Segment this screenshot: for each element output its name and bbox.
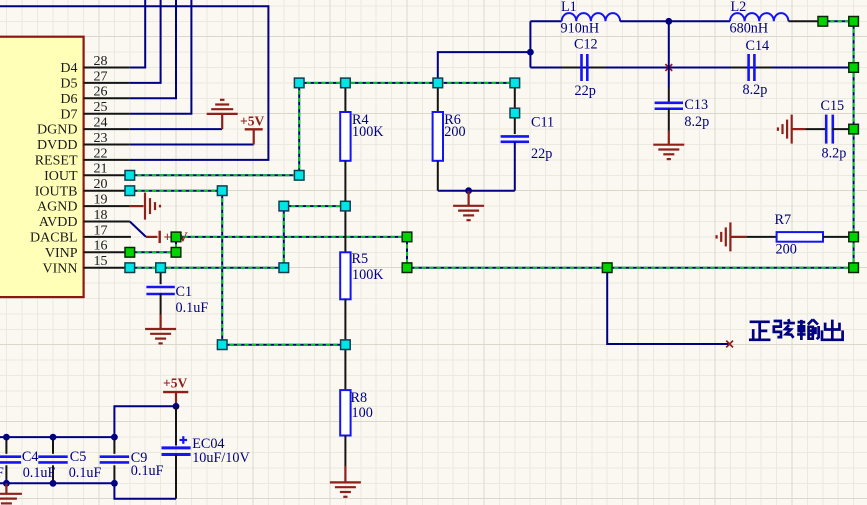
svg-text:15: 15 bbox=[94, 254, 108, 269]
junction dot (C9 bottom) bbox=[111, 480, 118, 487]
svg-text:C15: C15 bbox=[821, 98, 845, 114]
ground R7 (pointing left) bbox=[717, 222, 747, 251]
capacitor C1 bbox=[146, 287, 174, 294]
wire stub C14 left bbox=[731, 67, 746, 69]
wire C11 bottom bbox=[514, 142, 516, 191]
wire C15 right bbox=[832, 128, 849, 130]
pin 15 number bbox=[94, 254, 108, 269]
svg-text:L2: L2 bbox=[731, 0, 747, 15]
svg-text:D6: D6 bbox=[60, 92, 77, 107]
pin 17 (DACBL) lead bbox=[84, 236, 131, 238]
svg-text:200: 200 bbox=[776, 242, 797, 258]
wire C11 top bbox=[514, 83, 516, 134]
wire R7 right bbox=[823, 236, 849, 238]
label C14 bbox=[746, 38, 770, 54]
svg-text:D7: D7 bbox=[60, 107, 77, 122]
pin name D7 bbox=[60, 107, 77, 122]
pin 20 number bbox=[94, 177, 108, 192]
wire VINP (selected) bbox=[130, 251, 176, 253]
wire vertical x=222 (selected) bbox=[221, 191, 223, 345]
junction dot (176,406.3) bbox=[173, 403, 180, 410]
inductor L2 bbox=[730, 13, 788, 21]
wire R8 bottom bbox=[344, 436, 346, 467]
value 0.1uF (C4) bbox=[23, 465, 56, 481]
wire IOUT (selected) bbox=[130, 174, 299, 176]
IC U1 (DAC) body bbox=[0, 37, 84, 297]
svg-text:C4: C4 bbox=[22, 449, 39, 465]
svg-text:AGND: AGND bbox=[37, 200, 77, 215]
wire vertical x=284 (selected) bbox=[283, 206, 285, 268]
wire rail up to +5V node bbox=[114, 406, 176, 437]
pin name DVDD bbox=[37, 138, 77, 153]
pin name D5 bbox=[60, 77, 77, 92]
pin 19 (AGND) lead bbox=[84, 205, 130, 207]
svg-text:8.2p: 8.2p bbox=[684, 114, 709, 130]
svg-text:19: 19 bbox=[94, 193, 108, 208]
junction dot (C5 bottom) bbox=[50, 480, 57, 487]
pin 27 number bbox=[94, 69, 108, 84]
ground C13 bbox=[653, 131, 684, 160]
capacitor C15 bbox=[826, 115, 833, 144]
pin 18 (AVDD) lead bbox=[84, 221, 130, 223]
pin 28 (D4) lead bbox=[84, 67, 130, 69]
wire y=21 right (selected) bbox=[823, 20, 854, 22]
wire C13 top bbox=[668, 21, 670, 101]
wire stub C12 left bbox=[561, 67, 578, 69]
pin 26 (D6) lead bbox=[84, 97, 130, 99]
pin name VINN bbox=[43, 261, 78, 276]
label R4 bbox=[352, 112, 369, 128]
svg-text:C12: C12 bbox=[574, 37, 598, 53]
value 8.2p (C15) bbox=[822, 146, 847, 162]
wire R6-C11 horizontal bbox=[438, 190, 515, 192]
svg-text:22: 22 bbox=[94, 146, 108, 161]
resistor R4 bbox=[340, 112, 350, 161]
label R7 bbox=[775, 212, 792, 228]
capacitor C9 bbox=[100, 457, 129, 463]
pin 22 (RESET) lead bbox=[84, 159, 130, 161]
resistor R7 bbox=[777, 232, 823, 242]
svg-text:100K: 100K bbox=[352, 124, 384, 140]
svg-text:18: 18 bbox=[94, 208, 108, 223]
wire R6 top bbox=[437, 83, 439, 112]
pin 28 number bbox=[94, 54, 108, 69]
label C12 bbox=[574, 37, 598, 53]
wire DGND bbox=[130, 128, 222, 130]
label C15 bbox=[821, 98, 845, 114]
svg-text:C11: C11 bbox=[531, 115, 554, 131]
value 22p (C12) bbox=[575, 83, 596, 99]
resistor R6 bbox=[433, 112, 443, 161]
svg-text:+5V: +5V bbox=[240, 113, 264, 128]
wire R7 left bbox=[746, 236, 776, 238]
power +5V (EC04) bbox=[163, 376, 188, 407]
ground C15 (pointing left) bbox=[778, 115, 805, 144]
junction dot (C5 top) bbox=[50, 434, 57, 441]
wire stub C14 right bbox=[757, 67, 772, 69]
svg-text:680nH: 680nH bbox=[730, 20, 769, 36]
svg-text:0.1uF: 0.1uF bbox=[131, 463, 164, 479]
capacitor C5 bottom lead bbox=[52, 465, 54, 483]
svg-text:VINP: VINP bbox=[45, 246, 78, 261]
svg-text:IOUTB: IOUTB bbox=[35, 184, 78, 199]
inductor L1 bbox=[562, 13, 620, 21]
pin name IOUTB bbox=[35, 184, 78, 199]
wire sine output bbox=[607, 268, 729, 344]
power +5V (DACBL) bbox=[146, 229, 188, 244]
ground C1 bbox=[145, 315, 176, 344]
svg-text:24: 24 bbox=[94, 116, 108, 131]
junction dot (668.8,21.3) bbox=[665, 18, 672, 25]
capacitor EC04 (polarized) bbox=[162, 436, 191, 454]
pin name DACBL bbox=[30, 231, 77, 246]
wire R6 bottom bbox=[437, 161, 439, 191]
svg-text:25: 25 bbox=[94, 100, 108, 115]
pin 21 (IOUT) lead bbox=[84, 174, 130, 176]
svg-text:200: 200 bbox=[444, 124, 465, 140]
pin 16 number bbox=[94, 239, 108, 254]
pin 25 (D7) lead bbox=[84, 113, 130, 115]
capacitor C12 bbox=[582, 54, 588, 81]
selection handles (green vertices) bbox=[125, 17, 858, 273]
wire EC04 top lead bbox=[175, 406, 177, 445]
label C4 bbox=[22, 449, 39, 465]
wire x=438 to C12 rail bbox=[438, 52, 531, 83]
junction dot (C4 top) bbox=[3, 434, 10, 441]
value 0.1uF (C9) bbox=[131, 463, 164, 479]
pin name DGND bbox=[37, 123, 77, 138]
ground DGND (inverted) bbox=[207, 100, 238, 129]
svg-text:DGND: DGND bbox=[37, 123, 77, 138]
pin 24 (DGND) lead bbox=[84, 128, 130, 130]
capacitor C14 bbox=[749, 54, 755, 81]
value 8.2p (C14) bbox=[743, 82, 768, 98]
svg-text:C14: C14 bbox=[746, 38, 770, 54]
wire top rail y=83 (selected) bbox=[299, 82, 515, 84]
pin name IOUT bbox=[44, 169, 78, 184]
junction dot (C9 top) bbox=[111, 434, 118, 441]
svg-text:22p: 22p bbox=[531, 146, 552, 162]
svg-text:VINN: VINN bbox=[43, 261, 78, 276]
wire R5-R8 bbox=[344, 299, 346, 390]
value 200 (R6) bbox=[444, 124, 465, 140]
value 910nH (L1) bbox=[561, 20, 600, 36]
value 0.1uF (C3, off-screen) bbox=[0, 465, 4, 481]
label C5 bbox=[70, 449, 87, 465]
svg-text:0.1uF: 0.1uF bbox=[23, 465, 56, 481]
svg-text:10uF/10V: 10uF/10V bbox=[192, 450, 250, 466]
value 100 (R8) bbox=[352, 405, 373, 421]
capacitor C4 top lead bbox=[5, 437, 7, 454]
svg-text:0.1uF: 0.1uF bbox=[176, 300, 209, 316]
wire IOUTB (selected) bbox=[130, 190, 222, 192]
svg-text:100K: 100K bbox=[352, 267, 384, 283]
label R5 bbox=[352, 251, 369, 267]
capacitor C9 bottom lead bbox=[113, 465, 115, 483]
junction dot (468.6,190.7) bbox=[465, 187, 472, 194]
svg-text:21: 21 bbox=[94, 162, 108, 177]
power +5V (DVDD) bbox=[240, 113, 264, 144]
wire D7 to top bbox=[130, 0, 192, 114]
label C1 bbox=[176, 284, 193, 300]
pin name D4 bbox=[60, 61, 77, 76]
wire L1 feed vertical bbox=[529, 21, 531, 67]
wire R4 top bbox=[344, 83, 346, 112]
pin 25 number bbox=[94, 100, 108, 115]
pin name AVDD bbox=[39, 215, 78, 230]
ground (R6/C11) bbox=[453, 191, 484, 221]
pin 21 number bbox=[94, 162, 108, 177]
svg-text:L1: L1 bbox=[561, 0, 577, 15]
wire y=268 right (selected) bbox=[407, 267, 854, 269]
wire L1 left bbox=[530, 20, 561, 22]
wire C13 bottom bbox=[668, 109, 670, 131]
value 10uF/10V (EC04) bbox=[192, 450, 250, 466]
junction dot (530.4,52.1) bbox=[527, 49, 534, 56]
label R6 bbox=[444, 112, 461, 128]
wire L2 right bbox=[788, 20, 822, 22]
pin 17 number bbox=[94, 223, 108, 238]
capacitor C13 bbox=[655, 103, 683, 109]
svg-text:23: 23 bbox=[94, 131, 108, 146]
svg-text:IOUT: IOUT bbox=[44, 169, 78, 184]
pin name VINP bbox=[45, 246, 78, 261]
svg-text:8.2p: 8.2p bbox=[743, 82, 768, 98]
capacitor C9 top lead bbox=[113, 437, 115, 454]
svg-text:AVDD: AVDD bbox=[39, 215, 78, 230]
value 200 (R7) bbox=[776, 242, 797, 258]
wire D6 to top bbox=[130, 0, 176, 98]
svg-text:26: 26 bbox=[94, 85, 108, 100]
wire bottom link bbox=[114, 483, 176, 498]
resistor R5 bbox=[340, 252, 350, 299]
label L1 bbox=[561, 0, 577, 15]
svg-text:C1: C1 bbox=[176, 284, 193, 300]
wire EC04 bottom lead bbox=[175, 455, 177, 499]
svg-text:0.1uF: 0.1uF bbox=[69, 465, 102, 481]
capacitor C5 bbox=[38, 457, 67, 463]
svg-text:16: 16 bbox=[94, 239, 108, 254]
wire vertical x=176 (selected) bbox=[175, 237, 177, 252]
svg-text:R8: R8 bbox=[351, 390, 368, 406]
capacitor C5 top lead bbox=[52, 437, 54, 454]
label L2 bbox=[731, 0, 747, 15]
wire RESET loop (left edge, y=6.3) bbox=[0, 6, 268, 160]
wire L1-L2 bbox=[620, 20, 730, 22]
capacitor C4 bottom lead bbox=[5, 465, 7, 483]
junction dot (C4 bottom) bbox=[3, 480, 10, 487]
wire D4 to top bbox=[130, 0, 145, 68]
label C11 bbox=[531, 115, 554, 131]
wire top rail (y=437) bbox=[0, 436, 114, 438]
wire C15 left bbox=[805, 128, 826, 130]
svg-text:28: 28 bbox=[94, 54, 108, 69]
ground R8 bbox=[330, 466, 361, 497]
pin 23 number bbox=[94, 131, 108, 146]
svg-text:22p: 22p bbox=[575, 83, 596, 99]
selection handles (cyan vertices) bbox=[125, 78, 520, 349]
wire D5 to top bbox=[130, 0, 161, 83]
value 8.2p (C13) bbox=[684, 114, 709, 130]
svg-text:17: 17 bbox=[94, 223, 108, 238]
no-ERC marker (729.6,344) bbox=[726, 341, 733, 348]
capacitor C11 bbox=[501, 136, 529, 141]
svg-text:D4: D4 bbox=[60, 61, 77, 76]
wire y=237 (selected) bbox=[176, 236, 407, 238]
svg-text:0.1uF: 0.1uF bbox=[0, 465, 4, 481]
pin 18 number bbox=[94, 208, 108, 223]
svg-text:20: 20 bbox=[94, 177, 108, 192]
svg-text:R5: R5 bbox=[352, 251, 369, 267]
net label 正弦输出 (sine output) bbox=[749, 319, 843, 340]
svg-text:+5V: +5V bbox=[163, 376, 187, 391]
pin 19 number bbox=[94, 193, 108, 208]
svg-text:27: 27 bbox=[94, 69, 108, 84]
svg-text:RESET: RESET bbox=[35, 154, 78, 169]
svg-text:910nH: 910nH bbox=[561, 20, 600, 36]
svg-text:R7: R7 bbox=[775, 212, 792, 228]
pin 23 (DVDD) lead bbox=[84, 144, 130, 146]
wire y=206 (selected) bbox=[284, 205, 346, 207]
label R8 bbox=[351, 390, 368, 406]
label C9 bbox=[131, 450, 148, 466]
wire vertical x=854 (selected) bbox=[853, 21, 855, 267]
pin 27 (D5) lead bbox=[84, 82, 130, 84]
svg-text:8.2p: 8.2p bbox=[822, 146, 847, 162]
value 100K (R5) bbox=[352, 267, 384, 283]
value 0.1uF (C1) bbox=[176, 300, 209, 316]
wire AVDD diagonal bbox=[130, 222, 146, 237]
pin 15 (VINN) lead bbox=[84, 267, 130, 269]
capacitor C4 bbox=[0, 457, 21, 463]
wire R4-R5 bbox=[344, 161, 346, 253]
pin 22 number bbox=[94, 146, 108, 161]
ground AGND bbox=[130, 193, 160, 220]
wire stub C12 right bbox=[590, 67, 606, 69]
value 22p (C11) bbox=[531, 146, 552, 162]
crossover marker (668.8,67.5) bbox=[665, 64, 672, 71]
wire VINN (selected) bbox=[130, 267, 284, 269]
wire vertical x=299 (selected) bbox=[298, 83, 300, 175]
svg-text:C5: C5 bbox=[70, 449, 87, 465]
wire vertical x=407 (selected) bbox=[406, 237, 408, 268]
value 0.1uF (C5) bbox=[69, 465, 102, 481]
svg-text:100: 100 bbox=[352, 405, 373, 421]
resistor R8 bbox=[340, 390, 350, 435]
value 680nH (L2) bbox=[730, 20, 769, 36]
wire C1 bottom bbox=[160, 293, 162, 314]
pin 16 (VINP) lead bbox=[84, 251, 130, 253]
label C13 bbox=[684, 97, 708, 113]
svg-text:DVDD: DVDD bbox=[37, 138, 77, 153]
svg-text:D5: D5 bbox=[60, 77, 77, 92]
pin name RESET bbox=[35, 154, 78, 169]
wire C12/C14 rail bbox=[530, 67, 849, 69]
svg-text:C13: C13 bbox=[684, 97, 708, 113]
pin name AGND bbox=[37, 200, 77, 215]
pin name D6 bbox=[60, 92, 77, 107]
svg-text:DACBL: DACBL bbox=[30, 231, 77, 246]
wire DVDD bbox=[130, 144, 254, 146]
wire bottom rail (y=483) bbox=[0, 482, 114, 484]
pin 20 (IOUTB) lead bbox=[84, 190, 130, 192]
pin 26 number bbox=[94, 85, 108, 100]
value 100K (R4) bbox=[352, 124, 384, 140]
ground (decoupling rail) bbox=[0, 483, 22, 505]
label EC04 bbox=[192, 436, 224, 452]
wire VINN-C1 bbox=[160, 268, 162, 285]
pin 24 number bbox=[94, 116, 108, 131]
wire bottom y=345 (selected) bbox=[222, 344, 345, 346]
